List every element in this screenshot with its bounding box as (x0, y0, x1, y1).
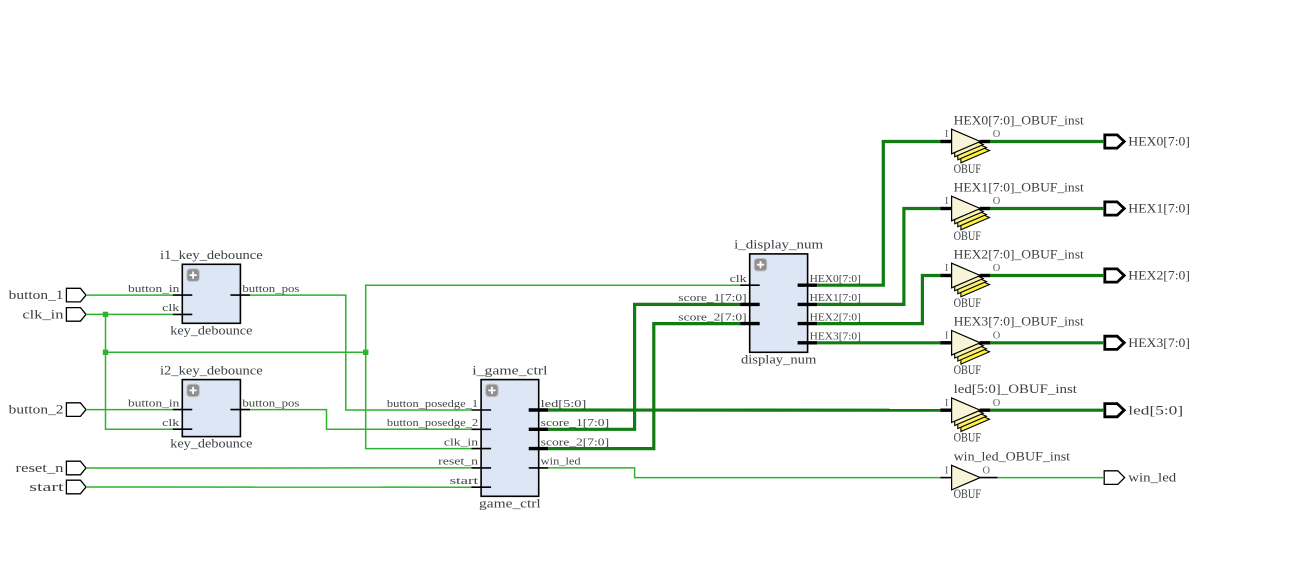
junction net clk_in at (105.5,314.4) (103, 312, 108, 317)
svg-text:game_ctrl: game_ctrl (479, 496, 541, 510)
svg-text:I: I (945, 465, 949, 476)
wire bus HEX3[7:0]: OBUF output to port (990, 341, 1104, 344)
svg-text:O: O (993, 331, 1001, 342)
wire net reset_n: port to i_game_ctrl.reset_n (86, 467, 472, 469)
junction net clk_in at (365.7,352.3) (363, 350, 368, 355)
svg-text:display_num: display_num (741, 352, 817, 366)
svg-text:key_debounce: key_debounce (170, 323, 253, 337)
buffer HEX1[7:0]_OBUF_inst (OBUF) (940, 180, 1084, 243)
output port led[5:0] (1105, 403, 1183, 417)
buffer HEX3[7:0]_OBUF_inst (OBUF) (940, 315, 1084, 378)
wire net button_2: port to i2.button_in (86, 409, 173, 411)
svg-text:clk: clk (730, 274, 748, 285)
svg-text:I: I (945, 331, 949, 342)
svg-text:HEX3[7:0]: HEX3[7:0] (810, 332, 861, 343)
svg-text:key_debounce: key_debounce (170, 437, 253, 451)
svg-text:OBUF: OBUF (954, 162, 982, 176)
wire bus score_1[7:0]: i_game_ctrl to i_display_num (548, 304, 740, 429)
wire net clk_in: branch down to i_game_ctrl.clk_in (366, 352, 472, 448)
svg-text:I: I (945, 196, 949, 207)
svg-text:OBUF: OBUF (954, 296, 982, 310)
svg-text:win_led: win_led (541, 457, 582, 468)
wire bus HEX0_OBUF[7:0]: i_display_num.HEX0 to HEX0 OBUF input (817, 142, 940, 286)
wire net clk_in: port to i1.clk (86, 313, 173, 315)
svg-text:led[5:0]: led[5:0] (541, 399, 587, 410)
output port HEX2[7:0] (1105, 269, 1190, 283)
module instance U4 i_display_num (display_num) (678, 238, 861, 367)
wire bus score_2[7:0]: i_game_ctrl to i_display_num (548, 324, 740, 449)
output port HEX1[7:0] (1105, 202, 1190, 216)
wire bus led[5:0]: OBUF output to port (990, 409, 1104, 412)
input port button_2 (9, 403, 86, 417)
output port HEX3[7:0] (1105, 336, 1190, 350)
svg-text:HEX2[7:0]: HEX2[7:0] (810, 312, 861, 323)
input port clk_in (22, 308, 86, 322)
svg-text:i1_key_debounce: i1_key_debounce (160, 248, 263, 262)
svg-text:i_display_num: i_display_num (734, 238, 824, 252)
svg-text:button_posedge_2: button_posedge_2 (387, 418, 478, 429)
svg-text:HEX1[7:0]: HEX1[7:0] (810, 293, 861, 304)
wire net clk_in: vertical branch to i2.clk (106, 314, 173, 429)
wire bus HEX2[7:0]: OBUF output to port (990, 274, 1104, 277)
svg-text:I: I (945, 398, 949, 409)
wire net clk_in: horizontal branch (106, 351, 366, 353)
svg-text:button_pos: button_pos (242, 398, 299, 409)
buffer HEX0[7:0]_OBUF_inst (OBUF) (940, 113, 1084, 176)
buffer win_led_OBUF_inst (OBUF) (940, 449, 1071, 500)
wire bus HEX1[7:0]: OBUF output to port (990, 207, 1104, 210)
output port win_led (1104, 471, 1176, 485)
svg-text:HEX0[7:0]: HEX0[7:0] (1128, 135, 1190, 149)
svg-text:score_2[7:0]: score_2[7:0] (678, 312, 746, 323)
svg-text:O: O (993, 398, 1001, 409)
svg-text:HEX2[7:0]: HEX2[7:0] (1128, 269, 1190, 283)
svg-text:O: O (993, 263, 1001, 274)
output port HEX0[7:0] (1105, 135, 1190, 149)
svg-text:led[5:0]_OBUF_inst: led[5:0]_OBUF_inst (954, 382, 1078, 396)
buffer led[5:0]_OBUF_inst (OBUF) (940, 382, 1077, 445)
wire net button_1: port to i1.button_in (86, 294, 173, 296)
svg-text:button_pos: button_pos (242, 284, 299, 295)
wire net button_2_pos: i2.button_pos to i_game_ctrl.button_posedge_2 (250, 410, 472, 430)
wire net clk_in: branch up to i_display_num.clk (366, 285, 740, 352)
svg-text:clk: clk (162, 303, 180, 314)
wire bus HEX0[7:0]: OBUF output to port (990, 140, 1104, 143)
svg-text:start: start (450, 476, 479, 487)
svg-text:reset_n: reset_n (438, 457, 479, 468)
svg-text:score_1[7:0]: score_1[7:0] (541, 418, 609, 429)
svg-text:HEX0[7:0]: HEX0[7:0] (810, 274, 861, 285)
svg-text:i_game_ctrl: i_game_ctrl (472, 363, 548, 377)
svg-text:clk: clk (162, 418, 180, 429)
wire net start: port to i_game_ctrl.start (86, 486, 472, 488)
input port button_1 (9, 288, 86, 302)
module instance U3 i_game_ctrl (game_ctrl) (387, 363, 609, 510)
wire net button_1_pos: i1.button_pos to i_game_ctrl.button_posedge_1 (250, 295, 472, 410)
svg-text:button_in: button_in (128, 398, 180, 409)
svg-text:win_led: win_led (1128, 471, 1176, 485)
svg-text:button_1: button_1 (9, 288, 64, 302)
svg-text:HEX0[7:0]_OBUF_inst: HEX0[7:0]_OBUF_inst (954, 113, 1085, 127)
svg-text:clk_in: clk_in (444, 437, 479, 448)
wire net win_led_OBUF: i_game_ctrl.win_led to win_led OBUF input (548, 468, 940, 478)
wire bus HEX2_OBUF[7:0]: i_display_num.HEX2 to HEX2 OBUF input (817, 276, 940, 324)
module instance U2 i2_key_debounce (key_debounce) (128, 363, 299, 450)
svg-text:HEX3[7:0]_OBUF_inst: HEX3[7:0]_OBUF_inst (954, 315, 1085, 329)
svg-text:start: start (29, 480, 64, 494)
input port reset_n (16, 461, 86, 475)
buffer HEX2[7:0]_OBUF_inst (OBUF) (940, 247, 1084, 310)
svg-text:I: I (945, 129, 949, 140)
svg-text:i2_key_debounce: i2_key_debounce (160, 363, 263, 377)
svg-text:OBUF: OBUF (954, 229, 982, 243)
svg-text:HEX1[7:0]_OBUF_inst: HEX1[7:0]_OBUF_inst (954, 180, 1085, 194)
svg-text:HEX2[7:0]_OBUF_inst: HEX2[7:0]_OBUF_inst (954, 247, 1085, 261)
svg-text:HEX1[7:0]: HEX1[7:0] (1128, 202, 1190, 216)
junction net clk_in at (105.5,352.3) (103, 350, 108, 355)
svg-text:clk_in: clk_in (22, 308, 63, 322)
svg-text:OBUF: OBUF (954, 487, 982, 501)
svg-text:O: O (983, 465, 991, 476)
svg-text:led[5:0]: led[5:0] (1128, 403, 1183, 417)
wire net win_led: OBUF output to port (997, 477, 1104, 479)
svg-text:score_2[7:0]: score_2[7:0] (541, 437, 609, 448)
wire bus HEX1_OBUF[7:0]: i_display_num.HEX1 to HEX1 OBUF input (817, 209, 940, 305)
svg-text:reset_n: reset_n (16, 461, 64, 475)
wire bus HEX3_OBUF[7:0]: i_display_num.HEX3 to HEX3 OBUF input (817, 341, 940, 344)
svg-text:O: O (993, 129, 1001, 140)
svg-text:HEX3[7:0]: HEX3[7:0] (1128, 336, 1190, 350)
svg-text:I: I (945, 263, 949, 274)
svg-text:O: O (993, 196, 1001, 207)
input port start (29, 480, 86, 494)
svg-text:button_posedge_1: button_posedge_1 (387, 399, 478, 410)
svg-text:score_1[7:0]: score_1[7:0] (678, 293, 746, 304)
module instance U1 i1_key_debounce (key_debounce) (128, 248, 299, 337)
svg-text:button_in: button_in (128, 284, 180, 295)
wire bus led_OBUF[5:0]: i_game_ctrl.led to led OBUF input (548, 408, 940, 411)
svg-text:win_led_OBUF_inst: win_led_OBUF_inst (954, 449, 1071, 463)
svg-text:OBUF: OBUF (954, 431, 982, 445)
svg-text:OBUF: OBUF (954, 363, 982, 377)
svg-text:button_2: button_2 (9, 403, 64, 417)
